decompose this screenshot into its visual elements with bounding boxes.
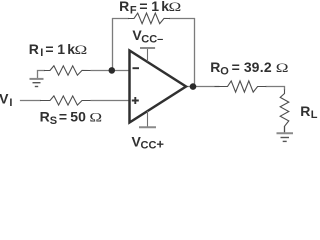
svg-text:RO=39.2: RO=39.2 xyxy=(210,59,272,77)
op-amp U1 triangle xyxy=(130,51,187,123)
junction node at output xyxy=(190,83,197,90)
svg-text:RS=50: RS=50 xyxy=(40,109,87,127)
wire feedback right vertical xyxy=(194,18,196,87)
resistor RS 50 ohm xyxy=(40,96,91,105)
wire VI to RS xyxy=(20,100,41,102)
resistor RF 1 kohm feedback xyxy=(128,13,170,24)
svg-text:Ω: Ω xyxy=(169,0,182,15)
VCC- supply stub xyxy=(147,48,149,62)
svg-text:RL: RL xyxy=(300,103,317,121)
svg-text:VI: VI xyxy=(0,90,12,109)
svg-text:Ω: Ω xyxy=(276,61,289,76)
op-amp non-inverting input plus sign xyxy=(132,97,139,104)
svg-text:Ω: Ω xyxy=(75,43,88,58)
ground symbol left xyxy=(30,79,44,87)
wire RL to ground xyxy=(284,126,286,133)
wire RF to feedback right corner xyxy=(169,18,195,20)
wire feedback top left xyxy=(112,18,129,20)
wire RS to op-amp + input xyxy=(91,100,130,102)
op-amp inverting input minus sign xyxy=(133,67,140,69)
wire RI to op-amp - input xyxy=(91,70,130,72)
svg-text:RF=1k: RF=1k xyxy=(119,0,169,16)
resistor RO 39.2 ohm xyxy=(215,81,267,92)
resistor RI 1 kohm xyxy=(44,66,91,75)
svg-text:VCC+: VCC+ xyxy=(132,134,165,151)
junction node at inverting input xyxy=(109,67,116,74)
svg-text:VCC–: VCC– xyxy=(132,27,163,45)
wire feedback left vertical xyxy=(112,18,114,71)
svg-text:RI=1k: RI=1k xyxy=(29,41,75,59)
resistor RL vertical xyxy=(280,90,289,133)
VCC- supply bar xyxy=(140,47,155,49)
wire RO to top of RL xyxy=(266,87,285,91)
VCC+ supply bar xyxy=(139,126,156,128)
wire ground to RI xyxy=(38,71,46,79)
VCC+ supply stub xyxy=(147,111,149,127)
svg-text:Ω: Ω xyxy=(89,111,102,126)
ground symbol right xyxy=(277,133,294,141)
wire op-amp output to RO xyxy=(186,86,220,88)
